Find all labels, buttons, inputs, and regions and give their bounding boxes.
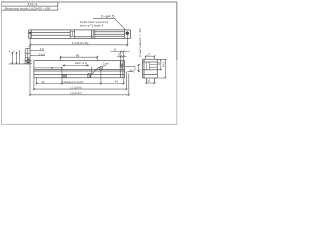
leader 2-4.5: [30, 55, 45, 57]
front view body top edge: [34, 60, 125, 62]
extension lines left: [35, 78, 37, 84]
top view block A: [70, 30, 74, 39]
svg-text:L2(Measuring length: L2(Measuring length: [62, 80, 84, 84]
top view right end block: [125, 30, 131, 39]
title table: [2, 2, 58, 10]
left vertical dim 1: [11, 52, 13, 64]
svg-text:11: 11: [113, 48, 116, 52]
dim 80: [59, 56, 98, 61]
svg-text:L1 (L0+9): L1 (L0+9): [70, 86, 82, 90]
svg-text:±1: ±1: [147, 79, 150, 83]
dim 17: [145, 55, 156, 59]
dimension L1(L0+9) under top view: [29, 35, 128, 47]
callout leader: [115, 18, 126, 30]
front view right hole: [121, 65, 124, 68]
svg-text:L1(L0+9): L1(L0+9): [72, 41, 89, 45]
left baseline: [9, 63, 30, 65]
centerline to section: [134, 69, 144, 71]
dim row 1: [36, 83, 123, 85]
top view inner lines right section: [95, 31, 125, 33]
leader 4-8: [29, 50, 44, 52]
svg-text:slot d 2: slot d 2: [75, 61, 88, 65]
extra vertical ref line: [18, 50, 20, 64]
circled feature: [99, 67, 102, 70]
section inner detail: [147, 62, 158, 70]
cable exit: [125, 67, 135, 72]
right end verticals: [120, 61, 123, 78]
dim slot 0.2: [63, 65, 89, 66]
top view inner lines left section: [31, 32, 70, 34]
svg-text:17: 17: [147, 52, 151, 56]
svg-text:43: 43: [41, 80, 45, 84]
top view right hole: [126, 32, 129, 35]
top view left hole: [29, 32, 31, 34]
svg-text:Interval(2) = 15: Interval(2) = 15: [138, 27, 142, 56]
section bottom dim: [145, 82, 155, 84]
svg-text:41: 41: [115, 80, 119, 84]
end view hole crosshair: [27, 60, 30, 63]
X-box mount symbol: [63, 75, 67, 78]
section vdim 24: [157, 59, 162, 70]
dim 11 right top: [110, 50, 129, 64]
top view left cap line: [30, 30, 32, 39]
section vdim 34.5: [157, 59, 166, 78]
callout underline: [93, 17, 115, 19]
dim row 3: [30, 94, 129, 96]
svg-text:80: 80: [76, 54, 80, 58]
section outline: [143, 59, 158, 83]
border frame: [2, 2, 177, 124]
left vertical dim 2: [16, 52, 18, 64]
svg-text:Measuring length L(L0)=50 ~ 60: Measuring length L(L0)=50 ~ 600: [5, 6, 51, 10]
svg-text:R: R: [130, 68, 132, 72]
svg-text:double-sided countersunk: double-sided countersunk: [80, 20, 109, 24]
top view inner line middle section: [75, 36, 93, 38]
svg-text:2-4.5: 2-4.5: [39, 52, 46, 56]
front view bottom edge: [34, 77, 125, 79]
svg-text:L (L0+17): L (L0+17): [70, 91, 82, 95]
bracket slash group: [88, 67, 99, 78]
tiny vertical dim near section: [138, 65, 140, 72]
svg-text:2–φ4.5: 2–φ4.5: [101, 15, 115, 19]
svg-text:34.5: 34.5: [162, 61, 166, 67]
extension lines right: [123, 78, 125, 85]
svg-text:4-8: 4-8: [40, 47, 44, 51]
top view block B: [92, 30, 95, 39]
svg-text:24: 24: [157, 62, 161, 65]
partial line with dots: [34, 67, 62, 69]
section foot: [146, 78, 154, 84]
svg-text:(bore φ7.5 depth 4: (bore φ7.5 depth 4: [80, 24, 104, 28]
top view body outline: [29, 29, 131, 31]
dim 8 right: [117, 56, 127, 58]
front view inner lines: [34, 69, 125, 71]
dim row 2: [34, 88, 127, 90]
